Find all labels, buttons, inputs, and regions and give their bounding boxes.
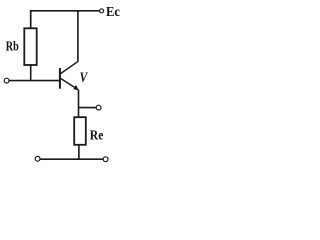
svg-text:Ec: Ec — [106, 5, 120, 20]
svg-text:Rb: Rb — [6, 40, 19, 55]
svg-text:V: V — [80, 70, 89, 86]
svg-text:Re: Re — [90, 129, 104, 144]
